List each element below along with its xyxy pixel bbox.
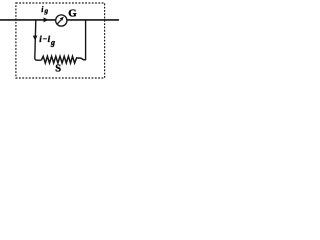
wire: left vertical branch xyxy=(35,20,42,60)
wire: top horizontal lead xyxy=(0,19,119,21)
wire: right vertical branch xyxy=(85,20,87,60)
dashed enclosure box xyxy=(16,3,105,78)
svg-text:ig: ig xyxy=(41,5,48,15)
arrowhead: current ig on top wire xyxy=(44,17,49,22)
galvanometer U1 circle xyxy=(56,15,67,26)
resistor S zigzag xyxy=(41,56,85,63)
svg-text:G: G xyxy=(68,7,77,19)
background xyxy=(0,0,122,82)
galvanometer needle arrow xyxy=(57,19,62,24)
svg-text:S: S xyxy=(55,63,61,74)
arrowhead: current i-ig on left branch xyxy=(33,36,38,41)
